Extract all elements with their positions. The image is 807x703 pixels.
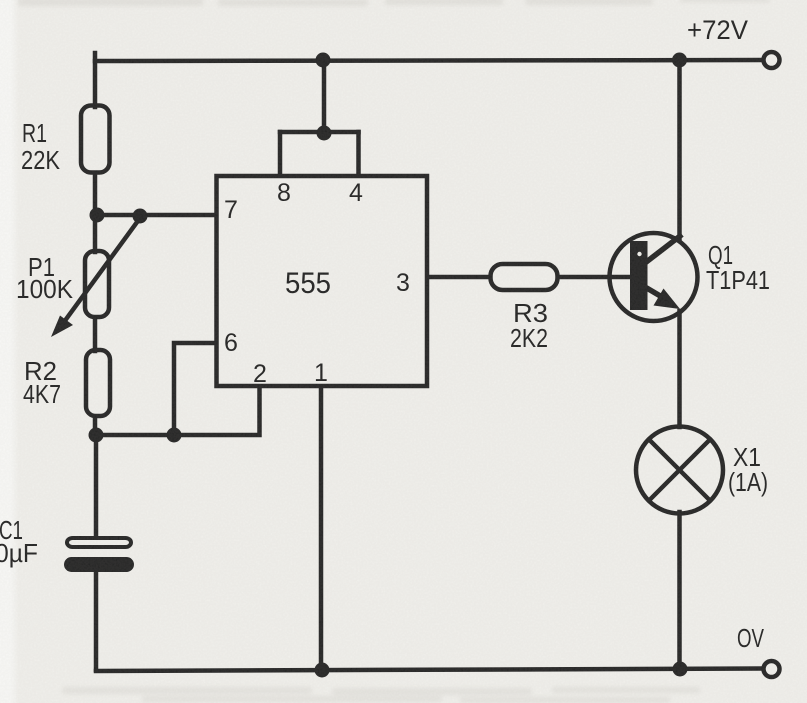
wire tie bar riser to rail <box>322 60 327 132</box>
wire left branch: rail to R1 <box>93 53 98 107</box>
paper speckle texture <box>0 0 1 1</box>
wire top rail (+V) <box>95 60 762 61</box>
wire P1 to R2 <box>93 318 98 351</box>
transistor Q1 collector stroke <box>645 235 682 264</box>
scan ghost band top <box>18 0 770 6</box>
wire R1 to node A <box>93 173 98 216</box>
transistor Q1 base bar <box>630 241 648 310</box>
wire pin 6 to node B <box>174 343 214 432</box>
junction dot lamp at rail <box>673 662 688 677</box>
terminal 0V <box>764 661 780 677</box>
wire R3 to Q1 base <box>559 275 633 280</box>
resistor R1 <box>81 106 110 173</box>
junction dot collector at rail <box>672 53 687 68</box>
lamp X1 cross stroke 2 <box>649 439 711 501</box>
wire pin 4 stub <box>356 132 361 174</box>
scan ghost band bottom <box>62 687 700 703</box>
resistor R2 <box>86 350 110 416</box>
transistor Q1 emitter stroke <box>645 287 662 297</box>
capacitor C1 bottom plate <box>64 557 134 572</box>
wire pin 8 stub <box>278 132 283 174</box>
capacitor C1 top plate <box>67 538 131 547</box>
junction node B dot 1 <box>89 428 104 443</box>
transistor Q1 circle <box>610 233 698 321</box>
IC U1 555 body <box>217 176 428 386</box>
junction node B dot 2 <box>167 428 182 443</box>
wire bottom rail (0V) <box>96 669 762 672</box>
wire emitter to lamp X1 <box>677 311 682 427</box>
wire node B to pin 2 riser <box>95 387 260 435</box>
wire collector to top rail <box>677 58 682 240</box>
junction node A dot 1 <box>90 208 105 223</box>
wire R2 to node B <box>93 417 98 437</box>
wire node A to pin 7 <box>94 213 214 218</box>
junction dot tie bar <box>317 126 332 141</box>
left page margin highlight <box>0 0 19 703</box>
junction node A dot 2 <box>133 209 148 224</box>
wire pin 1 to bottom rail <box>319 388 324 670</box>
wire pins 8-4 tie bar <box>280 130 359 135</box>
wire node B to capacitor C1 <box>94 435 99 537</box>
transistor Q1 emitter arrowhead <box>654 289 681 310</box>
transistor Q1 base bar speck <box>637 252 641 256</box>
wire lamp to bottom rail <box>677 512 682 670</box>
terminal +72V <box>764 52 780 68</box>
wire C1 to bottom rail <box>94 571 99 670</box>
wire node A to P1 <box>93 215 98 252</box>
lamp X1 cross stroke 1 <box>649 439 711 501</box>
wire pin 3 to R3 <box>429 275 490 280</box>
potentiometer P1 wiper arrow <box>64 218 140 322</box>
lamp X1 circle <box>636 427 723 514</box>
potentiometer P1 body <box>85 251 109 317</box>
resistor R3 <box>491 264 558 290</box>
junction dot pin1 at rail <box>315 663 330 678</box>
junction dot rail over IC <box>316 53 331 68</box>
